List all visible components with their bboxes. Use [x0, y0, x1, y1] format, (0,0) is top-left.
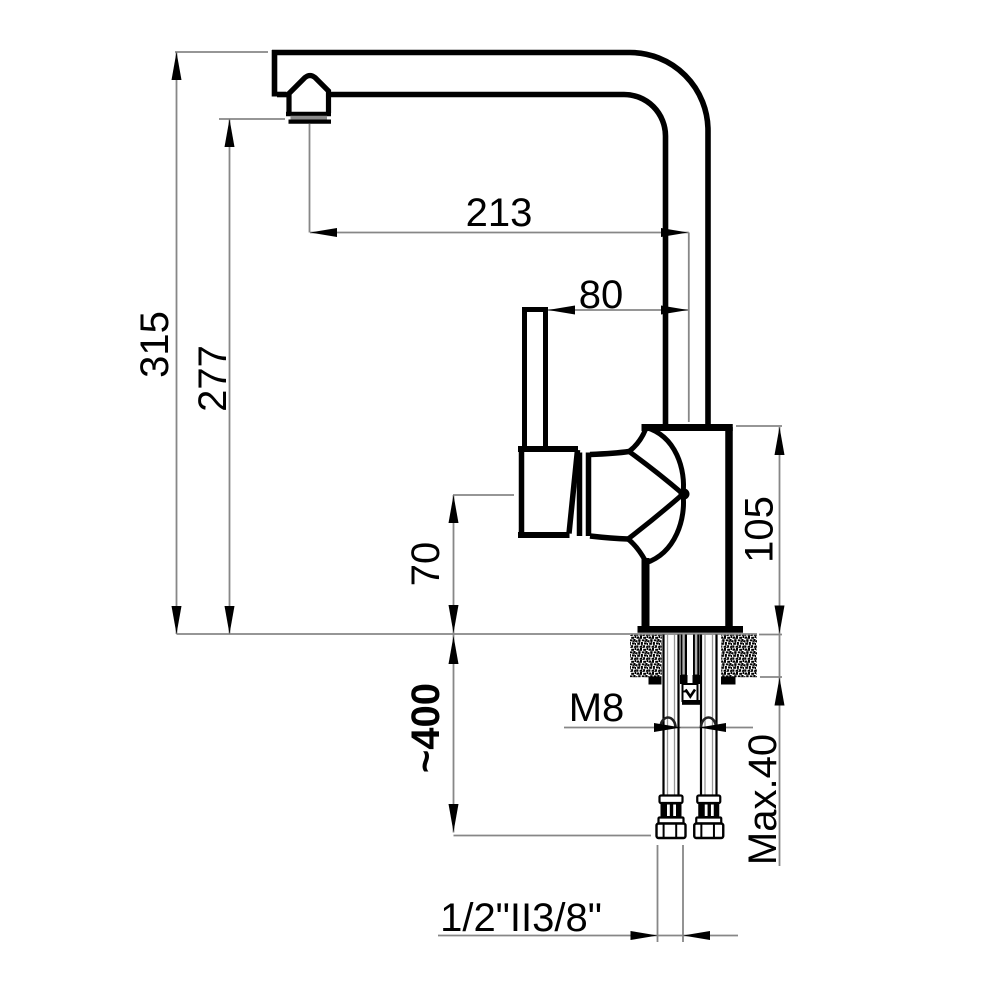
- svg-text:70: 70: [404, 542, 448, 587]
- svg-text:213: 213: [466, 191, 533, 235]
- svg-text:Max.40: Max.40: [741, 734, 785, 865]
- svg-text:M8: M8: [569, 686, 625, 730]
- svg-text:1/2"II3/8": 1/2"II3/8": [440, 896, 602, 940]
- svg-text:80: 80: [579, 273, 624, 317]
- svg-text:~400: ~400: [404, 683, 448, 773]
- svg-text:315: 315: [133, 311, 177, 378]
- svg-text:105: 105: [738, 496, 782, 563]
- svg-text:277: 277: [191, 345, 235, 412]
